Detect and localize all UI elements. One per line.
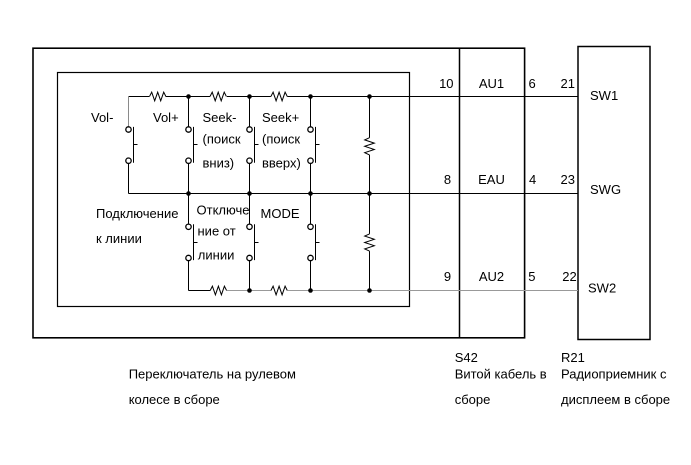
- R21 radio receiver box: [578, 47, 650, 340]
- label SW1: [590, 88, 618, 103]
- net AU1: [479, 76, 504, 91]
- svg-text:Переключатель на рулевом: Переключатель на рулевом: [129, 366, 296, 381]
- svg-text:Витой кабель в: Витой кабель в: [455, 366, 547, 381]
- switch Seek+: [308, 97, 320, 194]
- svg-text:колесе в сборе: колесе в сборе: [129, 392, 220, 407]
- resistor vertical row1: [365, 97, 375, 194]
- svg-text:дисплеем в сборе: дисплеем в сборе: [561, 392, 670, 407]
- svg-text:Seek-: Seek-: [203, 110, 237, 125]
- svg-text:ние от: ние от: [198, 224, 236, 239]
- pin 10: [439, 76, 453, 91]
- switch Vol-: [126, 97, 138, 194]
- switch Seek-: [247, 97, 259, 194]
- switch line connect (Podkljuchenie k linii): [186, 194, 198, 291]
- pin 9: [444, 269, 451, 284]
- pin 8: [444, 172, 451, 187]
- label MODE: [261, 206, 300, 221]
- svg-text:Подключение: Подключение: [96, 206, 178, 221]
- svg-text:R21: R21: [561, 350, 585, 365]
- label Seek+: [262, 110, 299, 125]
- wire top rail AU1 segment 1: [129, 96, 150, 98]
- wire mid rail EAU to R21: [129, 193, 579, 195]
- resistor between Vol+ and Seek- nodes: [210, 92, 226, 101]
- svg-text:Отключе: Отключе: [197, 203, 250, 218]
- svg-text:линии: линии: [198, 247, 235, 262]
- svg-text:23: 23: [561, 172, 575, 187]
- svg-text:SW1: SW1: [590, 88, 618, 103]
- connector S42 divider line: [459, 48, 461, 338]
- pin 5: [528, 269, 535, 284]
- svg-text:Vol-: Vol-: [91, 110, 113, 125]
- svg-text:8: 8: [444, 172, 451, 187]
- wire top rail AU1 to R21: [287, 96, 578, 98]
- label (poisk vverh): [262, 131, 301, 170]
- svg-text:сборе: сборе: [455, 392, 491, 407]
- resistor vertical row2: [365, 194, 375, 291]
- svg-text:(поиск: (поиск: [203, 131, 241, 146]
- junction dots mid rail: [186, 191, 372, 196]
- pin 4: [529, 172, 536, 187]
- pin 6: [529, 76, 536, 91]
- wire top rail AU1 segment 2: [166, 96, 210, 98]
- svg-text:9: 9: [444, 269, 451, 284]
- switch line disconnect (Otkljuchenie ot linii): [247, 194, 259, 291]
- label Vol+: [153, 110, 179, 125]
- resistor between Vol- and Vol+ nodes: [150, 92, 166, 101]
- caption steering wheel switch assembly: [129, 366, 296, 407]
- pin 21: [561, 76, 575, 91]
- svg-text:MODE: MODE: [261, 206, 300, 221]
- label Otkljuchenie ot linii: [197, 203, 250, 263]
- pin 22: [562, 269, 576, 284]
- inner box: switch circuit: [58, 73, 410, 307]
- svg-text:Радиоприемник с: Радиоприемник с: [561, 366, 667, 381]
- svg-text:22: 22: [562, 269, 576, 284]
- svg-text:6: 6: [529, 76, 536, 91]
- svg-text:SW2: SW2: [588, 281, 616, 296]
- svg-text:(поиск: (поиск: [262, 131, 300, 146]
- svg-text:к линии: к линии: [96, 231, 142, 246]
- svg-text:21: 21: [561, 76, 575, 91]
- switch MODE: [308, 194, 320, 291]
- label SWG: [590, 182, 621, 197]
- svg-text:5: 5: [528, 269, 535, 284]
- net EAU: [478, 172, 505, 187]
- svg-text:4: 4: [529, 172, 536, 187]
- caption R21 radio receiver: [561, 350, 670, 407]
- resistor between Seek- and Seek+ nodes: [271, 92, 287, 101]
- svg-text:Seek+: Seek+: [262, 110, 299, 125]
- svg-text:S42: S42: [455, 350, 478, 365]
- resistor on bottom rail left: [210, 286, 226, 295]
- label Seek-: [203, 110, 237, 125]
- junction dots bottom rail: [247, 288, 372, 293]
- outer box: steering wheel switch assembly + spiral cable: [33, 48, 525, 338]
- wire bottom rail AU2 segment 1: [189, 290, 211, 292]
- label SW2: [588, 281, 616, 296]
- wire top rail AU1 segment 3: [227, 96, 271, 98]
- net AU2: [479, 269, 504, 284]
- svg-text:вниз): вниз): [203, 155, 235, 170]
- svg-text:EAU: EAU: [478, 172, 505, 187]
- label Podkljuchenie k linii: [96, 206, 178, 246]
- svg-text:вверх): вверх): [262, 155, 301, 170]
- wire bottom rail AU2 gray segment to R21: [409, 290, 578, 292]
- svg-text:AU1: AU1: [479, 76, 504, 91]
- svg-text:AU2: AU2: [479, 269, 504, 284]
- caption S42 spiral cable: [455, 350, 547, 407]
- resistor on bottom rail right: [271, 286, 287, 295]
- junction dots top rail: [186, 94, 372, 99]
- pin 23: [561, 172, 575, 187]
- label Vol-: [91, 110, 113, 125]
- svg-text:SWG: SWG: [590, 182, 621, 197]
- wire bottom rail AU2 segment 2: [227, 290, 271, 292]
- wire bottom rail AU2 segment 3: [287, 290, 409, 292]
- svg-text:Vol+: Vol+: [153, 110, 179, 125]
- label (poisk vniz): [203, 131, 241, 170]
- svg-text:10: 10: [439, 76, 453, 91]
- switch Vol+: [186, 97, 198, 194]
